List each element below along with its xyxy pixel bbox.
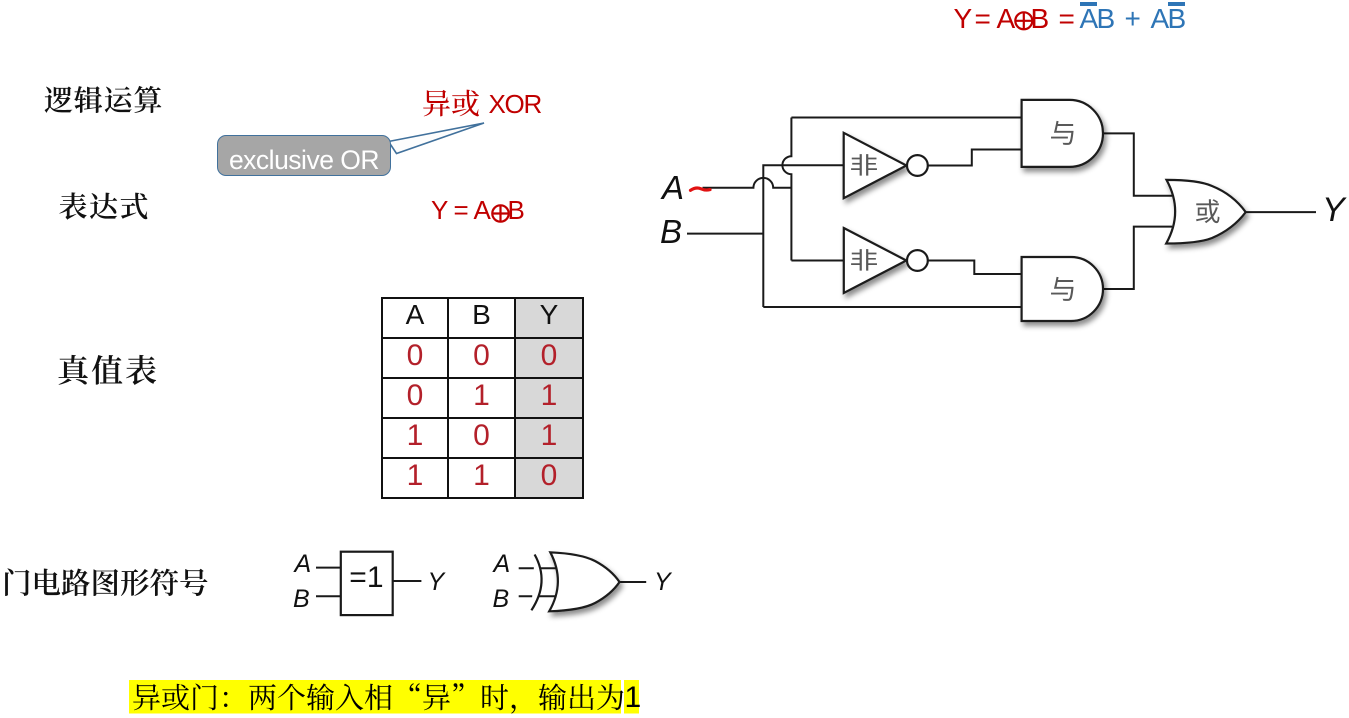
annotation red mark on input A xyxy=(691,188,711,190)
AND gate U3 label 与 xyxy=(1051,121,1074,145)
xor circle-plus glyph (expression row) xyxy=(491,204,510,223)
OR gate U5 xyxy=(1166,180,1246,244)
wire: NOT2 input from A bus xyxy=(791,260,843,262)
XOR symbol 1 label A xyxy=(295,550,312,579)
overbar on last B (blue) xyxy=(1168,2,1186,6)
yellow highlight bar xyxy=(129,680,621,714)
truth table xyxy=(381,297,584,499)
XOR symbol 2: gate body xyxy=(549,552,619,611)
label 门电路图形符号 (gate symbols) xyxy=(5,568,207,596)
XOR symbol 1 text =1 xyxy=(349,561,383,595)
XOR symbol 2: input wire B xyxy=(519,595,557,597)
inverter U1 label 非 xyxy=(851,154,877,176)
wire: OR output to Y xyxy=(1243,211,1316,213)
formula: Y = A xor B (expression row) xyxy=(431,195,448,226)
node A input label xyxy=(662,169,684,207)
speech bubble tail xyxy=(389,123,485,154)
formula top: Y = A xor B = Abar B + A Bbar xyxy=(954,3,973,35)
wire: AND1 output to OR input 1 xyxy=(1103,133,1172,195)
label 真值表 (truth table) xyxy=(58,355,156,385)
XOR symbol 2 label Y xyxy=(654,568,671,597)
xor circle-plus glyph (top formula) xyxy=(1014,11,1034,31)
AND gate U3 (top) xyxy=(1022,100,1103,167)
XOR symbol 2: output wire Y xyxy=(619,581,646,583)
inverter U2 label 非 xyxy=(851,249,877,271)
OR gate U5 label 或 xyxy=(1196,199,1219,223)
XOR symbol 1 label B xyxy=(293,585,310,614)
inverter U1 (top NOT gate) xyxy=(844,133,907,198)
node Y output label xyxy=(1322,191,1345,230)
XOR symbol 2 (US shape): input wire A xyxy=(519,567,557,569)
overbar on first A (blue) xyxy=(1080,2,1098,6)
inverter U2 (bottom NOT gate) xyxy=(844,228,907,293)
wire: NOT1 output to AND1 input 2 xyxy=(928,150,1022,166)
wire: B vertical bus to NOT1 input xyxy=(763,165,843,307)
XOR symbol 2: extra input arc xyxy=(531,555,541,611)
node B input label xyxy=(660,213,682,251)
label 异或 (XOR) red xyxy=(423,90,479,117)
yellow highlight bar segment 2 (behind digit 1) xyxy=(624,680,639,714)
AND gate U4 (bottom) xyxy=(1022,257,1103,321)
label 表达式 (expression) xyxy=(59,192,147,219)
wire: NOT2 output to AND2 input 1 xyxy=(928,261,1022,275)
wire: input B horizontal xyxy=(687,233,763,235)
wire: AND2 output to OR input 2 xyxy=(1103,227,1172,289)
XOR symbol 1 label Y xyxy=(428,568,445,597)
inverter U1 output bubble xyxy=(907,155,928,176)
XOR symbol 2 label B xyxy=(493,585,510,614)
speech bubble: exclusive OR xyxy=(217,135,391,176)
wire: A vertical bus with hop over NOT1 input wire xyxy=(782,118,791,261)
label 逻辑运算 (logic operation) xyxy=(45,86,162,113)
wire: top wire A to AND1 input 1 xyxy=(791,117,1021,119)
XOR symbol 1 (IEC box): input wire A xyxy=(316,567,341,569)
inverter U2 output bubble xyxy=(907,250,928,271)
wire: input A horizontal with hop over B vertical xyxy=(703,178,792,188)
AND gate U4 label 与 xyxy=(1051,277,1074,301)
XOR symbol 1: input wire B xyxy=(316,595,341,597)
black digit 1 at end of yellow sentence xyxy=(625,681,642,715)
label XOR red xyxy=(489,89,541,120)
wire: bottom long wire B to AND2 input 2 xyxy=(763,306,1021,308)
XOR symbol 1: output wire Y xyxy=(393,580,422,582)
XOR symbol 2 label A xyxy=(494,550,511,579)
note sentence: XOR gate outputs 1 when inputs differ xyxy=(133,683,623,713)
XOR symbol 1: rectangle body xyxy=(341,552,393,615)
